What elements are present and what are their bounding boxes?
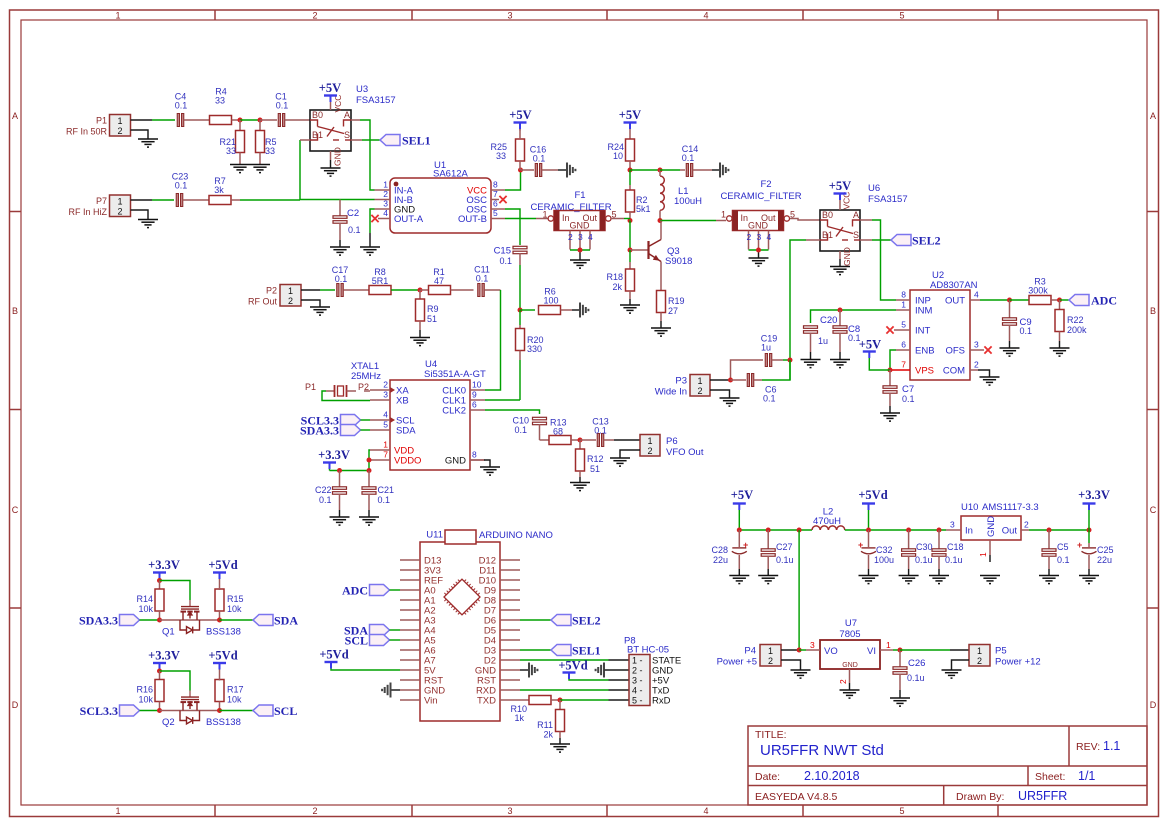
svg-text:P3: P3 <box>675 376 687 387</box>
svg-text:GND: GND <box>570 221 591 231</box>
svg-text:P1: P1 <box>305 382 316 392</box>
wire to SDA flag <box>220 619 254 621</box>
resistor R7 <box>209 176 231 205</box>
svg-text:2k: 2k <box>543 730 553 740</box>
svg-text:33: 33 <box>265 146 275 156</box>
svg-text:+3.3V: +3.3V <box>318 448 350 462</box>
ground <box>801 360 821 368</box>
svg-text:VFO Out: VFO Out <box>666 447 704 458</box>
svg-text:5: 5 <box>493 208 498 218</box>
svg-text:3: 3 <box>810 640 815 650</box>
svg-text:UR5FFR: UR5FFR <box>1018 789 1067 803</box>
svg-text:+5V: +5V <box>731 488 753 502</box>
ground <box>830 360 850 368</box>
wire to ADC flag <box>1060 299 1070 301</box>
junction <box>157 708 162 713</box>
svg-text:R11: R11 <box>537 720 553 730</box>
svg-text:GND: GND <box>445 456 466 467</box>
svg-text:C26: C26 <box>908 658 925 669</box>
svg-text:200k: 200k <box>1067 325 1087 335</box>
transistor Q2 <box>162 691 241 729</box>
connector P5 <box>969 645 1041 668</box>
svg-text:1: 1 <box>768 646 773 656</box>
svg-text:10k: 10k <box>227 695 242 705</box>
power +5Vd R17 <box>208 649 237 681</box>
svg-text:+5V: +5V <box>829 179 851 193</box>
ceramic filter F2 <box>720 179 801 250</box>
resistor R9 <box>416 290 439 337</box>
capacitor C16 <box>521 145 567 177</box>
ground <box>610 458 630 466</box>
ground <box>570 483 590 491</box>
svg-text:Date:: Date: <box>755 771 780 783</box>
ground <box>250 165 270 173</box>
svg-text:+5Vd: +5Vd <box>319 648 348 662</box>
svg-text:ENB: ENB <box>915 346 935 357</box>
net flag SCL U11 <box>345 634 400 648</box>
ground <box>310 307 330 315</box>
svg-text:1: 1 <box>117 197 122 207</box>
ground <box>651 328 671 336</box>
net flag SDA3.3 Q1 <box>79 614 160 628</box>
svg-text:Sheet:: Sheet: <box>1035 771 1065 783</box>
junction L1 bottom <box>658 218 663 223</box>
wire ENB <box>890 350 896 370</box>
net flag SEL1 <box>380 134 431 148</box>
regulator U10 AMS1117-3.3 <box>946 502 1039 562</box>
ground <box>720 398 740 406</box>
resistor R16 <box>136 671 164 711</box>
ground <box>980 576 1000 584</box>
svg-text:S: S <box>853 230 859 240</box>
svg-text:4: 4 <box>588 232 593 242</box>
svg-text:2: 2 <box>312 806 317 816</box>
net flag SEL2 U11 <box>551 614 601 628</box>
wire U3.S to SEL1 <box>351 139 380 141</box>
svg-text:470uH: 470uH <box>813 516 841 527</box>
svg-text:SEL1: SEL1 <box>402 134 431 148</box>
inductor L2 <box>812 507 845 531</box>
capacitor C15 <box>494 246 527 311</box>
svg-text:C28: C28 <box>711 545 728 555</box>
wire U1.3 GND <box>370 209 375 247</box>
svg-text:100: 100 <box>543 296 558 306</box>
wire R2 to R18 <box>629 250 631 270</box>
svg-text:0.1: 0.1 <box>902 394 915 404</box>
wire P1.2 to ground <box>131 130 149 139</box>
svg-text:8: 8 <box>493 180 498 190</box>
svg-text:BT HC-05: BT HC-05 <box>627 645 669 656</box>
svg-text:6: 6 <box>493 199 498 209</box>
svg-text:P1: P1 <box>96 116 107 126</box>
svg-text:0.1u: 0.1u <box>945 555 963 565</box>
junction <box>337 468 342 473</box>
capacitor C9 <box>1003 300 1033 348</box>
svg-text:B0: B0 <box>312 110 323 120</box>
wire R24 to L1 <box>630 169 660 171</box>
capacitor C14 <box>660 144 719 177</box>
svg-text:In: In <box>562 213 570 223</box>
svg-text:1: 1 <box>721 210 726 220</box>
ground <box>570 260 590 268</box>
ground <box>138 139 158 147</box>
svg-text:+3.3V: +3.3V <box>1078 488 1110 502</box>
svg-text:10k: 10k <box>138 695 153 705</box>
junction <box>217 708 222 713</box>
resistor R14 <box>136 581 164 621</box>
svg-text:3 -: 3 - <box>632 676 643 686</box>
capacitor C13 <box>580 417 640 447</box>
svg-text:P2: P2 <box>266 286 277 296</box>
svg-text:1u: 1u <box>761 343 771 353</box>
resistor R22 <box>1055 300 1087 348</box>
svg-text:R18: R18 <box>606 272 623 282</box>
wire CLK1 to R20 <box>485 399 520 401</box>
junction <box>558 698 563 703</box>
wire U11.D2 to P8.1 <box>520 659 629 661</box>
svg-text:R22: R22 <box>1067 315 1084 325</box>
svg-text:UR5FFR NWT Std: UR5FFR NWT Std <box>760 742 884 759</box>
svg-text:2: 2 <box>288 296 293 306</box>
svg-text:BSS138: BSS138 <box>206 717 241 728</box>
svg-text:7805: 7805 <box>839 629 860 640</box>
svg-text:A: A <box>12 111 18 121</box>
ground <box>359 517 379 525</box>
wire to U7 branch <box>798 530 800 650</box>
svg-text:ADC: ADC <box>342 584 368 598</box>
svg-text:GND: GND <box>986 516 997 537</box>
junction <box>788 358 793 363</box>
wire C26 to P5 <box>900 649 969 651</box>
svg-text:6: 6 <box>472 400 477 410</box>
svg-text:1: 1 <box>697 376 702 386</box>
wire U11.D6 to SEL2 <box>520 619 551 621</box>
svg-text:10k: 10k <box>138 604 153 614</box>
resistor R18 <box>606 269 634 305</box>
ground <box>791 670 811 678</box>
regulator U7 7805 <box>799 618 900 690</box>
wire P4.1 <box>781 649 799 651</box>
capacitor C11 <box>474 265 500 297</box>
svg-text:F1: F1 <box>574 190 585 201</box>
svg-text:1.1: 1.1 <box>1103 739 1120 753</box>
net flag SDA U11 <box>344 624 400 638</box>
wire +3.3V rail <box>330 450 371 471</box>
ground <box>899 576 919 584</box>
junction <box>518 168 523 173</box>
capacitor C20 <box>804 315 838 359</box>
capacitor C30 <box>902 530 933 575</box>
svg-text:U10: U10 <box>961 502 978 513</box>
no-connect X pin4 <box>371 215 378 222</box>
svg-text:0.1u: 0.1u <box>907 673 925 683</box>
svg-text:2: 2 <box>312 11 317 21</box>
svg-text:0.1: 0.1 <box>319 495 332 505</box>
svg-text:2: 2 <box>117 206 122 216</box>
svg-text:OUT-A: OUT-A <box>394 214 424 225</box>
junction <box>1047 528 1052 533</box>
net flag SCL <box>253 704 297 718</box>
wire rail left <box>739 529 812 531</box>
transistor Q3 <box>630 221 692 292</box>
svg-text:0.1u: 0.1u <box>776 555 794 565</box>
svg-text:VO: VO <box>824 646 838 657</box>
wire P5.2 to ground <box>952 660 970 670</box>
junction <box>898 648 903 653</box>
svg-text:P4: P4 <box>744 646 756 657</box>
svg-text:1: 1 <box>288 286 293 296</box>
capacitor C8 <box>833 310 861 359</box>
resistor R6 <box>520 287 579 315</box>
svg-text:XB: XB <box>396 396 409 407</box>
junction <box>628 248 633 253</box>
svg-text:+5V: +5V <box>619 108 641 122</box>
svg-text:ARDUINO NANO: ARDUINO NANO <box>479 530 553 541</box>
ground <box>138 220 158 228</box>
svg-text:2: 2 <box>568 232 573 242</box>
wire P2.2 to ground <box>301 300 320 307</box>
wire F1 out to R2 <box>611 218 624 220</box>
svg-text:U3: U3 <box>356 84 368 95</box>
svg-text:0.1: 0.1 <box>175 181 188 191</box>
svg-text:300k: 300k <box>1028 286 1048 296</box>
svg-text:+5V: +5V <box>319 81 341 95</box>
svg-text:SDA3.3: SDA3.3 <box>300 424 339 438</box>
svg-text:Power +12: Power +12 <box>995 657 1041 668</box>
capacitor C19 <box>731 334 791 381</box>
svg-text:2 -: 2 - <box>632 666 643 676</box>
net flag SCL3.3 Q2 <box>80 704 160 718</box>
U6 GND pin <box>840 247 852 266</box>
power +5Vd P8 <box>558 659 629 681</box>
svg-text:B: B <box>12 306 18 316</box>
wire P4.2 to ground <box>781 660 801 670</box>
svg-text:1: 1 <box>115 806 120 816</box>
net flag SDA <box>253 614 298 628</box>
ground <box>321 168 341 176</box>
connector P3 <box>655 375 710 398</box>
svg-text:F2: F2 <box>760 179 771 190</box>
side ground R6 <box>580 303 588 318</box>
side ground U11 right <box>529 663 537 678</box>
svg-text:R17: R17 <box>227 685 244 695</box>
connector P2 <box>248 285 301 307</box>
svg-text:P7: P7 <box>96 196 107 206</box>
svg-text:+: + <box>743 540 748 550</box>
resistor R5 <box>256 120 277 164</box>
wire row Q2 <box>160 710 220 712</box>
resistor R11 <box>537 700 564 744</box>
svg-text:22u: 22u <box>1097 555 1112 565</box>
wire U6.B1 down <box>790 240 820 380</box>
svg-text:R16: R16 <box>136 685 153 695</box>
svg-text:R19: R19 <box>668 296 685 306</box>
svg-text:22u: 22u <box>713 555 728 565</box>
wire rail right <box>1029 529 1089 531</box>
side ground U11 left <box>382 683 390 698</box>
ground <box>830 267 850 275</box>
module U11 ARDUINO NANO <box>400 530 553 722</box>
wire OUT <box>980 299 1010 301</box>
svg-text:GND: GND <box>842 662 858 669</box>
svg-text:2: 2 <box>647 446 652 456</box>
svg-text:2: 2 <box>383 380 388 390</box>
op-amp U1 SA612A <box>375 160 506 233</box>
capacitor C25 <box>1077 530 1114 575</box>
resistor R19 <box>657 291 685 328</box>
svg-text:B: B <box>1150 306 1156 316</box>
svg-text:Wide In: Wide In <box>655 387 687 398</box>
resistor R3 <box>1010 277 1060 305</box>
svg-text:6: 6 <box>901 340 906 350</box>
svg-text:R12: R12 <box>587 454 604 464</box>
svg-text:1: 1 <box>383 440 388 450</box>
svg-text:SCL: SCL <box>274 704 297 718</box>
junction <box>866 528 871 533</box>
svg-text:7: 7 <box>493 189 498 199</box>
resistor R21 <box>219 120 244 164</box>
svg-text:+5V: +5V <box>509 108 531 122</box>
IC U2 AD8307 <box>890 270 984 380</box>
net flag ADC <box>1069 294 1117 308</box>
svg-text:GND: GND <box>842 247 852 266</box>
svg-text:A: A <box>853 210 859 220</box>
resistor R17 <box>215 680 244 711</box>
capacitor C32 <box>858 530 894 575</box>
svg-text:Q1: Q1 <box>162 627 175 638</box>
svg-text:In: In <box>741 213 749 223</box>
wire xtal left to XB <box>322 391 370 401</box>
junction <box>906 528 911 533</box>
wire P8.2 gnd <box>605 669 630 671</box>
ground <box>980 377 1000 385</box>
junction <box>518 308 523 313</box>
svg-text:2: 2 <box>747 232 752 242</box>
svg-text:1u: 1u <box>818 336 828 346</box>
svg-text:Power +5: Power +5 <box>717 657 757 668</box>
wire <box>152 119 175 121</box>
svg-text:Out: Out <box>1002 526 1018 537</box>
title block <box>748 726 1147 805</box>
svg-text:R9: R9 <box>427 304 439 314</box>
no-connect X INT <box>886 326 893 333</box>
capacitor C22 <box>315 471 347 517</box>
svg-text:+3.3V: +3.3V <box>148 649 180 663</box>
svg-text:2: 2 <box>697 386 702 396</box>
wire P3.2 to ground <box>710 390 730 398</box>
svg-text:33: 33 <box>496 151 506 161</box>
side ground C14 <box>720 163 728 178</box>
svg-text:3: 3 <box>507 11 512 21</box>
svg-text:1: 1 <box>383 180 388 190</box>
power +5V U3 <box>319 81 341 110</box>
svg-text:1: 1 <box>978 552 988 557</box>
svg-text:0.1: 0.1 <box>763 394 776 404</box>
net flag SEL1 U11 <box>551 644 601 658</box>
wire U6.S to SEL2 <box>860 239 891 241</box>
svg-text:C25: C25 <box>1097 545 1114 555</box>
junction <box>766 528 771 533</box>
svg-text:1: 1 <box>115 11 120 21</box>
svg-text:C22: C22 <box>315 485 332 495</box>
wire P7.1 <box>131 199 153 201</box>
svg-text:C30: C30 <box>916 542 933 552</box>
svg-text:0.1: 0.1 <box>476 274 489 284</box>
svg-text:In: In <box>965 526 973 537</box>
svg-text:0.1: 0.1 <box>682 153 695 163</box>
svg-text:C5: C5 <box>1057 542 1069 552</box>
svg-text:R15: R15 <box>227 594 244 604</box>
junction <box>756 248 761 253</box>
svg-text:OUT-B: OUT-B <box>458 214 487 225</box>
svg-text:5k1: 5k1 <box>636 204 651 214</box>
svg-text:U7: U7 <box>845 618 857 629</box>
power +5Vd U11 <box>319 648 400 671</box>
wire U11 GND left <box>391 689 400 691</box>
svg-text:P6: P6 <box>666 436 678 447</box>
svg-text:CERAMIC_FILTER: CERAMIC_FILTER <box>530 202 611 213</box>
svg-text:SEL2: SEL2 <box>912 234 941 248</box>
svg-text:+: + <box>858 540 863 550</box>
svg-text:0.1: 0.1 <box>594 426 607 436</box>
capacitor C1 <box>275 92 310 127</box>
ground <box>890 698 910 706</box>
ground <box>330 247 350 255</box>
svg-text:B0: B0 <box>822 210 833 220</box>
svg-text:5: 5 <box>901 320 906 330</box>
svg-text:2: 2 <box>1024 520 1029 530</box>
svg-text:9: 9 <box>472 390 477 400</box>
svg-text:1: 1 <box>886 640 891 650</box>
svg-text:VDDO: VDDO <box>394 456 421 467</box>
svg-text:8: 8 <box>472 450 477 460</box>
wire P3.1 <box>710 379 731 381</box>
svg-text:R14: R14 <box>136 594 153 604</box>
resistor R20 <box>516 310 544 400</box>
svg-text:BSS138: BSS138 <box>206 627 241 638</box>
wire <box>152 199 174 201</box>
capacitor C4 <box>175 92 210 127</box>
svg-text:2k: 2k <box>612 282 622 292</box>
resistor R1 <box>420 267 474 295</box>
wire +3.3V to Q2 gate <box>160 671 191 691</box>
svg-text:TXD: TXD <box>477 696 496 707</box>
junction <box>157 669 162 674</box>
power +5Vd rail <box>858 488 887 530</box>
ground <box>880 413 900 421</box>
power +5V U6 <box>829 179 851 210</box>
no-connect X OFS <box>984 346 991 353</box>
svg-text:1: 1 <box>901 300 906 310</box>
svg-text:+5Vd: +5Vd <box>208 558 237 572</box>
svg-text:3: 3 <box>507 806 512 816</box>
wire U11.D3 to SEL1 <box>520 649 551 651</box>
svg-text:U6: U6 <box>868 183 880 194</box>
analog switch U6 <box>820 183 908 251</box>
svg-text:CLK2: CLK2 <box>442 406 466 417</box>
svg-text:0.1u: 0.1u <box>915 555 933 565</box>
svg-text:0.1: 0.1 <box>348 225 361 235</box>
power +3.3V U4 <box>318 448 350 471</box>
wire U3.A <box>360 120 375 190</box>
wire to SCL flag <box>220 710 254 712</box>
svg-text:1: 1 <box>977 646 982 656</box>
net flag ADC U11 <box>342 584 400 598</box>
svg-text:51: 51 <box>427 314 437 324</box>
analog switch U3 <box>310 84 396 151</box>
svg-text:2: 2 <box>768 656 773 666</box>
svg-text:A: A <box>1150 111 1156 121</box>
